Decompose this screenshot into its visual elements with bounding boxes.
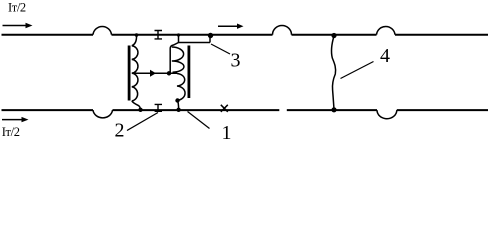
svg-text:Iт/2: Iт/2	[8, 1, 26, 15]
svg-text:Iт/2: Iт/2	[2, 125, 20, 139]
svg-text:4: 4	[380, 45, 390, 67]
svg-text:2: 2	[115, 120, 125, 142]
svg-text:1: 1	[222, 122, 232, 143]
svg-text:3: 3	[231, 49, 241, 71]
